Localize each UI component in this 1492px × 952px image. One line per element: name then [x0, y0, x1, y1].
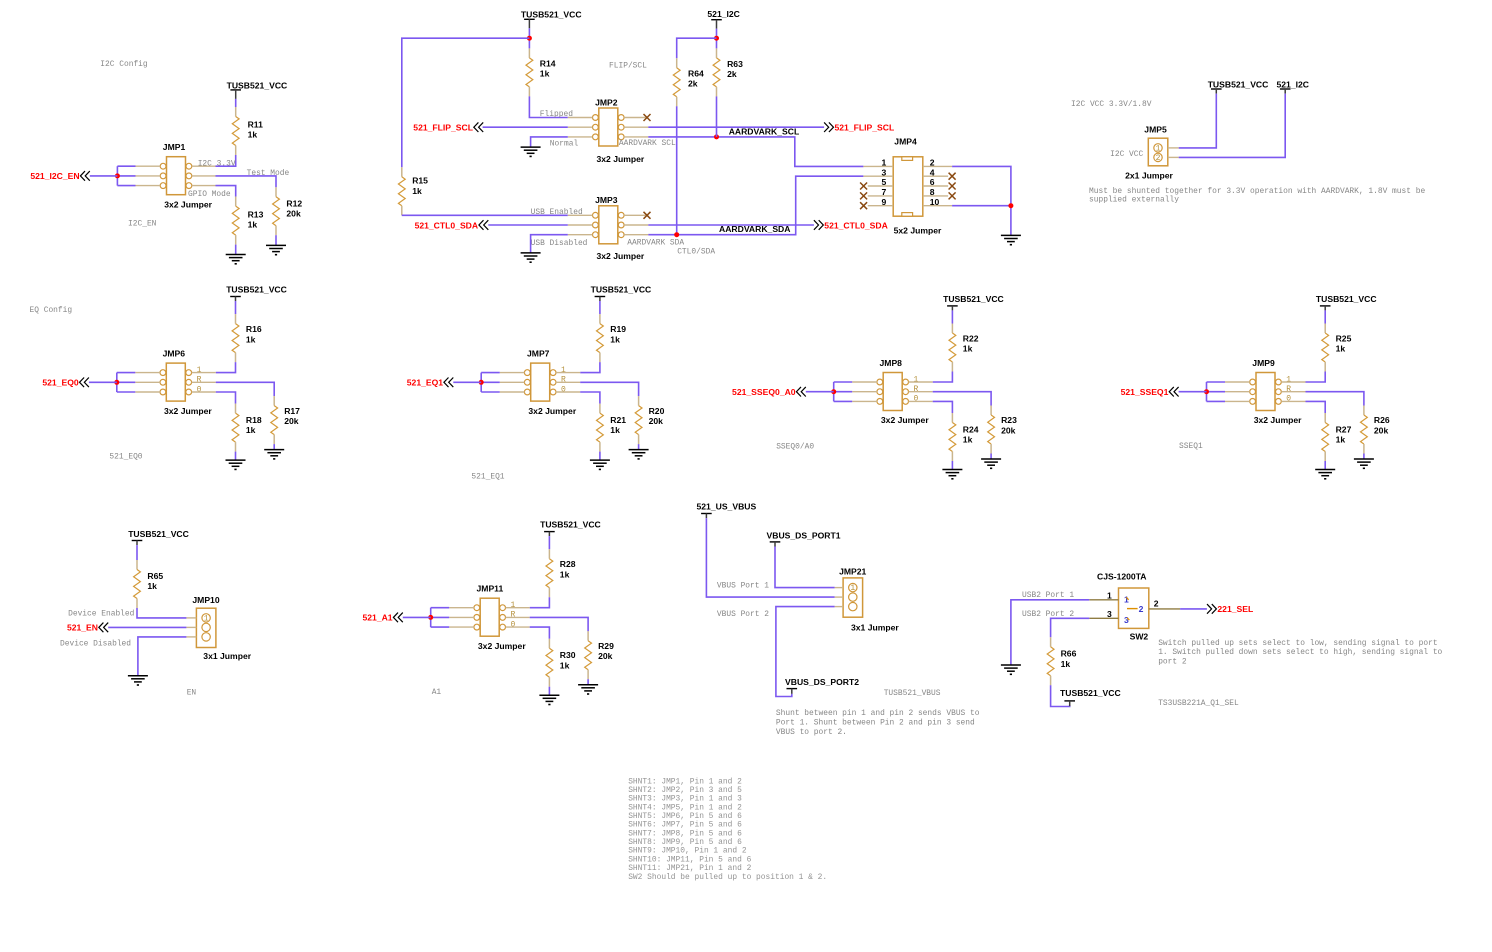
pin stub — [1089, 617, 1118, 619]
wire — [137, 608, 186, 618]
pin number 2 — [1154, 599, 1159, 609]
wire — [216, 186, 236, 197]
wire — [431, 626, 450, 628]
resistor R13 1k — [232, 197, 239, 245]
svg-text:JMP2: JMP2 — [595, 98, 618, 108]
svg-text:R11: R11 — [248, 120, 264, 130]
ground — [226, 460, 246, 469]
svg-text:I2C VCC 3.3V/1.8V: I2C VCC 3.3V/1.8V — [1071, 100, 1152, 109]
jumper JMP21 — [839, 567, 899, 633]
label VBUS Port 2 — [717, 610, 769, 619]
wire — [531, 137, 568, 147]
label FLIP/SCL — [609, 62, 647, 71]
svg-text:1k: 1k — [412, 186, 422, 196]
wire CTL0 SDA to port — [648, 224, 814, 226]
wire — [275, 235, 277, 245]
wire — [677, 38, 717, 58]
svg-text:1k: 1k — [963, 435, 973, 445]
pin number 7 — [882, 187, 887, 197]
label R26 value — [1374, 415, 1390, 435]
wire — [1324, 461, 1326, 470]
svg-text:Normal: Normal — [550, 140, 579, 149]
wire — [1207, 400, 1226, 402]
label AARDVARK SCL — [619, 139, 676, 148]
pin stub — [1225, 391, 1250, 393]
power symbol TUSB521_VCC — [943, 294, 1004, 311]
svg-text:R20: R20 — [649, 406, 665, 416]
svg-text:1k: 1k — [560, 569, 570, 579]
pin stub — [186, 626, 196, 628]
power symbol VBUS_DS_PORT2 — [785, 677, 859, 694]
wire — [1179, 391, 1207, 393]
pin stub — [909, 400, 933, 402]
note shunt list — [628, 777, 827, 882]
svg-text:R13: R13 — [248, 209, 264, 219]
wire pin2 to ground — [952, 166, 1011, 235]
power symbol TUSB521_VCC — [1060, 688, 1121, 706]
note shunt JMP5 — [1089, 187, 1425, 205]
junction — [115, 173, 120, 178]
label R18 value — [246, 415, 262, 435]
wire — [834, 381, 853, 383]
svg-text:JMP10: JMP10 — [192, 595, 219, 605]
resistor R64 2k — [673, 58, 680, 106]
pin stub — [863, 175, 893, 177]
wire — [481, 381, 500, 383]
svg-text:TUSB521_VCC: TUSB521_VCC — [227, 81, 288, 91]
pin stub — [1281, 391, 1305, 393]
pin stub — [868, 185, 893, 187]
pin stub — [1168, 147, 1179, 149]
junction — [1008, 203, 1013, 208]
svg-text:521_EQ1: 521_EQ1 — [407, 378, 444, 388]
svg-text:521_EQ0: 521_EQ0 — [42, 378, 79, 388]
svg-text:FLIP/SCL: FLIP/SCL — [609, 62, 647, 71]
no-connect X — [860, 183, 867, 190]
wire — [548, 687, 550, 696]
pin stub — [192, 391, 216, 393]
label R14 value — [540, 59, 556, 79]
wire — [834, 400, 853, 402]
svg-text:TUSB521_VCC: TUSB521_VCC — [1316, 294, 1377, 304]
pin stub — [556, 391, 580, 393]
svg-text:JMP8: JMP8 — [880, 358, 903, 368]
resistor R25 1k — [1322, 324, 1329, 372]
pin stub — [624, 214, 648, 216]
svg-text:EQ Config: EQ Config — [30, 306, 73, 315]
pin name 1 — [1286, 375, 1291, 384]
pin stub — [923, 185, 948, 187]
label R63 value — [727, 59, 743, 79]
wire — [528, 28, 530, 48]
pin stub — [449, 626, 474, 628]
svg-text:TUSB521_VCC: TUSB521_VCC — [943, 294, 1004, 304]
svg-text:1k: 1k — [246, 334, 256, 344]
wire — [116, 373, 118, 392]
wire — [587, 679, 589, 685]
ground — [629, 450, 649, 459]
svg-text:TUSB521_VCC: TUSB521_VCC — [1208, 79, 1269, 89]
svg-text:0: 0 — [1286, 395, 1291, 404]
wire — [431, 616, 450, 618]
resistor R29 20k — [585, 631, 592, 679]
wire — [1306, 372, 1326, 383]
svg-text:R19: R19 — [610, 324, 626, 334]
wire — [638, 444, 640, 450]
svg-text:1: 1 — [850, 584, 855, 593]
pin stub — [136, 185, 161, 187]
label VBUS Port 1 — [717, 582, 769, 591]
svg-text:521_US_VBUS: 521_US_VBUS — [697, 501, 757, 511]
svg-text:SHNT5: JMP6, Pin 5 and 6: SHNT5: JMP6, Pin 5 and 6 — [628, 812, 742, 821]
svg-text:1: 1 — [1156, 145, 1161, 154]
label AARDVARK SDA — [627, 238, 684, 247]
pin stub — [449, 616, 474, 618]
pin name 0 — [561, 385, 566, 394]
svg-text:2k: 2k — [688, 79, 698, 89]
svg-text:JMP11: JMP11 — [477, 584, 504, 594]
wire — [216, 382, 274, 396]
svg-text:JMP4: JMP4 — [894, 136, 917, 146]
svg-text:20k: 20k — [1374, 425, 1389, 435]
wire — [990, 454, 992, 460]
svg-text:AARDVARK_SCL: AARDVARK_SCL — [729, 126, 800, 136]
pin stub — [852, 381, 877, 383]
svg-text:3x2 Jumper: 3x2 Jumper — [164, 406, 212, 416]
svg-text:I2C VCC: I2C VCC — [1110, 150, 1143, 159]
svg-text:1k: 1k — [610, 334, 620, 344]
pin stub — [135, 381, 160, 383]
svg-text:521_FLIP_SCL: 521_FLIP_SCL — [835, 123, 895, 133]
wire — [216, 362, 236, 373]
wire — [580, 392, 600, 404]
label I2C Config — [100, 60, 148, 69]
pin stub — [1281, 381, 1305, 383]
wire — [676, 106, 678, 234]
pin stub — [568, 234, 593, 236]
ground — [1354, 459, 1374, 468]
ground — [226, 255, 246, 264]
svg-text:1k: 1k — [963, 344, 973, 354]
pin stub — [1281, 400, 1305, 402]
pin name 0 — [197, 385, 202, 394]
svg-text:521_CTL0_SDA: 521_CTL0_SDA — [824, 220, 888, 230]
label USB2 Port 2 — [1022, 610, 1074, 619]
ground — [590, 460, 610, 469]
label EN — [187, 688, 197, 697]
pin number 3 — [1107, 609, 1112, 619]
svg-text:1k: 1k — [147, 581, 157, 591]
svg-text:TS3USB221A_Q1_SEL: TS3USB221A_Q1_SEL — [1158, 699, 1239, 708]
ground — [264, 450, 284, 459]
pin stub — [192, 381, 216, 383]
resistor R24 1k — [949, 413, 956, 461]
svg-text:SHNT7: JMP8, Pin 5 and 6: SHNT7: JMP8, Pin 5 and 6 — [628, 829, 742, 838]
wire — [235, 99, 237, 107]
pin stub — [556, 381, 580, 383]
jumper JMP3 — [593, 195, 645, 261]
ground — [539, 695, 559, 704]
resistor R63 2k — [713, 48, 720, 96]
pin stub — [1225, 400, 1250, 402]
pin stub — [923, 205, 952, 207]
svg-text:521_FLIP_SCL: 521_FLIP_SCL — [413, 123, 473, 133]
wire — [402, 38, 530, 167]
pin number 1 — [882, 158, 887, 168]
pin name 0 — [1286, 395, 1291, 404]
label USB Disabled — [531, 239, 588, 248]
power symbol TUSB521_VCC — [226, 285, 287, 302]
svg-text:TUSB521_VCC: TUSB521_VCC — [128, 529, 189, 539]
svg-text:Switch pulled up sets select t: Switch pulled up sets select to low, sen… — [1158, 639, 1437, 648]
no-connect X — [949, 192, 956, 199]
svg-text:Port 1. Shunt between Pin 2 an: Port 1. Shunt between Pin 2 and pin 3 se… — [776, 718, 975, 727]
svg-text:port 2: port 2 — [1158, 657, 1187, 666]
svg-text:521_SSEQ0_A0: 521_SSEQ0_A0 — [732, 387, 796, 397]
svg-text:USB2 Port 1: USB2 Port 1 — [1022, 591, 1074, 600]
label R66 value — [1061, 649, 1077, 669]
label R20 value — [649, 406, 665, 426]
svg-text:1: 1 — [204, 615, 209, 624]
svg-text:R23: R23 — [1001, 415, 1017, 425]
wire — [430, 608, 432, 627]
wire — [833, 382, 835, 401]
svg-text:SSEQ1: SSEQ1 — [1179, 442, 1203, 451]
resistor R21 1k — [597, 404, 604, 452]
svg-text:3x2 Jumper: 3x2 Jumper — [1254, 415, 1302, 425]
pin stub — [135, 372, 160, 374]
pin number 10 — [930, 197, 940, 207]
jumper JMP1 — [160, 142, 212, 210]
pin stub — [192, 175, 216, 177]
label SSEQ1 — [1179, 442, 1203, 451]
wire — [1206, 382, 1208, 401]
svg-text:3x2 Jumper: 3x2 Jumper — [881, 415, 929, 425]
pin name 0 — [914, 395, 919, 404]
pin stub — [868, 195, 893, 197]
svg-text:AARDVARK SDA: AARDVARK SDA — [627, 238, 684, 247]
pin stub — [624, 117, 648, 119]
wire — [117, 175, 135, 177]
wire — [1180, 608, 1207, 610]
svg-text:SHNT10: JMP11, Pin 5 and 6: SHNT10: JMP11, Pin 5 and 6 — [628, 855, 751, 864]
svg-text:3x2 Jumper: 3x2 Jumper — [164, 199, 212, 209]
resistor R12 20k — [273, 187, 280, 235]
wire — [716, 29, 718, 49]
svg-text:SHNT1: JMP1, Pin 1 and 2: SHNT1: JMP1, Pin 1 and 2 — [628, 777, 742, 786]
ground — [1001, 235, 1021, 244]
junction — [674, 232, 679, 237]
resistor R27 1k — [1322, 413, 1329, 461]
pin stub — [500, 372, 525, 374]
pin name 1 — [511, 601, 516, 610]
svg-text:20k: 20k — [598, 651, 613, 661]
svg-text:R63: R63 — [727, 59, 743, 69]
port 521_SSEQ0_A0 — [732, 387, 806, 397]
wire — [599, 452, 601, 461]
pin stub — [835, 596, 844, 598]
wire — [1324, 310, 1326, 323]
svg-text:A1: A1 — [432, 688, 442, 697]
svg-text:R: R — [914, 385, 919, 394]
ground — [1001, 665, 1021, 674]
power symbol 521_US_VBUS — [697, 501, 757, 518]
svg-text:521_I2C: 521_I2C — [1277, 79, 1310, 89]
svg-text:R65: R65 — [147, 571, 163, 581]
svg-text:0: 0 — [561, 385, 566, 394]
svg-text:521_SSEQ1: 521_SSEQ1 — [1121, 387, 1169, 397]
svg-text:R14: R14 — [540, 59, 556, 69]
wire — [483, 126, 568, 128]
svg-text:0: 0 — [511, 620, 516, 629]
svg-text:3x2 Jumper: 3x2 Jumper — [597, 154, 645, 164]
pin stub — [909, 391, 933, 393]
wire — [273, 444, 275, 450]
svg-text:521_A1: 521_A1 — [362, 613, 392, 623]
svg-text:R: R — [511, 611, 516, 620]
resistor R14 1k — [526, 48, 533, 96]
svg-text:R30: R30 — [560, 650, 576, 660]
svg-text:AARDVARK SCL: AARDVARK SCL — [619, 139, 676, 148]
label R12 value — [286, 199, 302, 219]
pin number 2 — [930, 158, 935, 168]
pin name 0 — [511, 620, 516, 629]
pin stub — [624, 126, 648, 128]
wire — [933, 392, 991, 406]
pin stub — [506, 626, 530, 628]
label Normal — [550, 140, 579, 149]
power symbol TUSB521_VCC — [1316, 294, 1377, 311]
svg-text:20k: 20k — [286, 209, 301, 219]
svg-text:AARDVARK_SDA: AARDVARK_SDA — [719, 224, 790, 234]
note shunt JMP21 — [776, 709, 980, 737]
port 221_SEL — [1207, 604, 1253, 614]
power symbol TUSB521_VCC — [521, 9, 582, 28]
resistor R19 1k — [597, 314, 604, 362]
pin number 3 — [882, 167, 887, 177]
svg-text:VBUS to port 2.: VBUS to port 2. — [776, 728, 847, 737]
wire — [90, 175, 118, 177]
svg-text:2: 2 — [1139, 604, 1144, 614]
svg-text:1k: 1k — [560, 660, 570, 670]
svg-text:Device Disabled: Device Disabled — [60, 639, 131, 648]
wire — [403, 616, 431, 618]
note switch — [1158, 639, 1442, 667]
label R27 value — [1336, 424, 1352, 444]
power symbol TUSB521_VCC — [128, 529, 189, 545]
port 521_FLIP_SCL — [824, 122, 894, 132]
svg-text:VBUS Port 2: VBUS Port 2 — [717, 610, 769, 619]
ground — [266, 245, 286, 254]
port 521_EQ0 — [42, 378, 89, 388]
pin stub — [136, 175, 161, 177]
wire — [1051, 618, 1090, 637]
wire — [531, 235, 568, 253]
wire AARDVARK_SDA — [648, 176, 863, 235]
switch SW2 CJS-1200TA — [1097, 572, 1149, 642]
pin stub — [500, 381, 525, 383]
svg-text:GPIO Mode: GPIO Mode — [188, 190, 231, 199]
wire — [951, 310, 953, 323]
junction — [714, 134, 719, 139]
pin stub — [568, 126, 593, 128]
svg-text:USB Disabled: USB Disabled — [531, 239, 588, 248]
svg-text:1: 1 — [197, 366, 202, 375]
label USB Enabled — [531, 208, 583, 217]
jumper JMP7 — [524, 348, 576, 415]
svg-text:5x2 Jumper: 5x2 Jumper — [894, 226, 942, 236]
svg-text:CJS-1200TA: CJS-1200TA — [1097, 572, 1147, 582]
wire — [481, 372, 500, 374]
jumper JMP2 — [593, 98, 645, 165]
pin number 9 — [882, 197, 887, 207]
label R23 value — [1001, 415, 1017, 435]
pin stub — [852, 391, 877, 393]
svg-text:SW2: SW2 — [1130, 631, 1149, 641]
pin name R — [1286, 385, 1291, 394]
resistor R22 1k — [949, 324, 956, 372]
svg-text:supplied externally: supplied externally — [1089, 196, 1179, 205]
wire — [117, 165, 135, 167]
svg-text:2x1 Jumper: 2x1 Jumper — [1125, 171, 1173, 181]
pin stub — [909, 381, 933, 383]
pin number 5 — [882, 177, 887, 187]
wire — [402, 214, 568, 216]
junction — [831, 389, 836, 394]
label R11 value — [248, 120, 264, 140]
no-connect X — [949, 183, 956, 190]
wire — [580, 382, 638, 396]
svg-text:1k: 1k — [540, 69, 550, 79]
wire — [1011, 600, 1089, 665]
wire AARDVARK_SCL — [648, 137, 863, 167]
svg-text:SSEQ0/A0: SSEQ0/A0 — [776, 442, 814, 451]
wire — [116, 166, 118, 185]
no-connect X — [949, 173, 956, 180]
svg-text:R12: R12 — [286, 199, 302, 209]
wire — [216, 176, 277, 187]
wire — [580, 362, 600, 373]
svg-text:R22: R22 — [963, 334, 979, 344]
label R29 value — [598, 641, 614, 661]
pin stub — [506, 607, 530, 609]
wire — [933, 401, 953, 413]
port 521_I2C_EN — [30, 171, 89, 181]
wire — [1207, 391, 1226, 393]
pin stub — [835, 587, 844, 589]
power symbol TUSB521_VCC — [591, 285, 652, 302]
label A1 — [432, 688, 442, 697]
wire — [806, 391, 834, 393]
wire — [548, 536, 550, 549]
wire — [1051, 685, 1070, 706]
port 521_EN — [67, 623, 108, 633]
pin number 6 — [930, 177, 935, 187]
svg-text:20k: 20k — [649, 416, 664, 426]
svg-text:R: R — [561, 376, 566, 385]
svg-text:I2C_EN: I2C_EN — [128, 220, 157, 229]
wire — [117, 381, 136, 383]
ground — [521, 253, 541, 262]
pin stub — [568, 136, 593, 138]
svg-text:Device Enabled: Device Enabled — [68, 609, 135, 618]
jumper JMP9 — [1250, 358, 1302, 425]
pin stub — [1168, 156, 1179, 158]
ground — [1315, 470, 1335, 479]
svg-text:521_I2C: 521_I2C — [707, 9, 740, 19]
wire — [453, 381, 481, 383]
pin stub — [624, 224, 648, 226]
